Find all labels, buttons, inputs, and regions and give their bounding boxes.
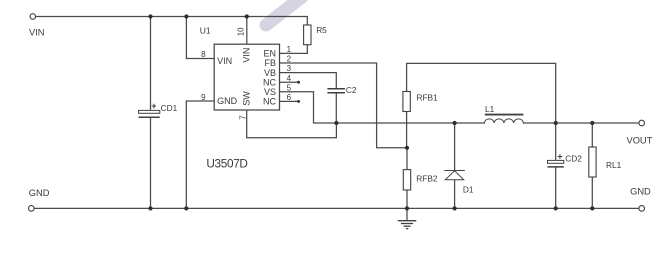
junction pin10/VIN: [245, 14, 249, 18]
node VOUT : wire L1 to terminal: [523, 122, 639, 124]
wire RFB2 leads: [406, 148, 408, 170]
wire pin3 VB to C2: [279, 73, 336, 89]
wire pin10 drop: [246, 17, 248, 45]
svg-text:SW: SW: [242, 91, 252, 106]
junction RFB2/GND: [405, 206, 409, 210]
wire R5 bottom lead to pin1: [279, 45, 307, 54]
svg-text:FB: FB: [264, 58, 276, 68]
svg-text:VS: VS: [264, 87, 276, 97]
diode D1: [444, 171, 465, 180]
wire SW node to L1: [336, 122, 484, 124]
pin6 NC end dot: [297, 100, 300, 103]
wire CD1 bottom lead: [150, 118, 152, 208]
svg-text:VIN: VIN: [242, 48, 252, 63]
svg-text:U1: U1: [200, 25, 211, 35]
watermark band (decorative): [266, 0, 302, 25]
svg-text:1: 1: [287, 45, 292, 54]
node GND : bottom rail wire: [34, 207, 639, 209]
svg-text:2: 2: [287, 55, 292, 64]
wire pin7 SW loop: [247, 110, 337, 138]
junction D1/GND: [453, 206, 457, 210]
svg-text:CD2: CD2: [565, 153, 582, 163]
wire R5 top lead: [306, 17, 308, 26]
svg-text:+: +: [557, 151, 562, 161]
svg-text:GND: GND: [630, 186, 651, 196]
svg-text:NC: NC: [263, 77, 276, 87]
wire CD2 leads: [555, 123, 557, 160]
svg-text:8: 8: [201, 50, 206, 59]
wire pin6 NC stub: [279, 100, 298, 102]
svg-text:RL1: RL1: [606, 160, 622, 170]
svg-text:GND: GND: [29, 188, 50, 198]
junction D1 cathode: [453, 121, 457, 125]
svg-text:4: 4: [287, 74, 292, 83]
wire CD1 top drop: [150, 17, 152, 111]
wire pin2 FB to divider midpoint: [279, 63, 407, 148]
svg-text:CD1: CD1: [161, 103, 178, 113]
junction RL1/GND: [590, 206, 594, 210]
terminal GND left: [29, 206, 35, 212]
terminal GND right: [639, 206, 645, 212]
svg-text:NC: NC: [263, 97, 276, 107]
wire pin5 VS to SW node: [279, 92, 336, 123]
wire pin9 GND drop: [186, 101, 214, 208]
wire C2 bottom lead: [335, 93, 337, 123]
svg-text:VOUT: VOUT: [627, 136, 653, 146]
capacitor CD1 (electrolytic): [139, 101, 160, 117]
wire ground stem: [406, 208, 408, 220]
junction SW/C2/VS: [334, 121, 338, 125]
svg-text:VIN: VIN: [29, 28, 45, 38]
capacitor CD2 (electrolytic): [548, 151, 564, 167]
junction CD2/GND: [554, 206, 558, 210]
svg-text:L1: L1: [485, 104, 495, 114]
junction RL1/VOUT: [590, 121, 594, 125]
resistor RL1: [589, 147, 596, 177]
svg-text:RFB1: RFB1: [417, 93, 439, 103]
junction pin8/VIN: [184, 14, 188, 18]
junction CD1/GND: [148, 206, 152, 210]
svg-text:U3507D: U3507D: [206, 156, 247, 170]
svg-text:5: 5: [287, 83, 292, 92]
op-amp U1 : IC body U3507D: [214, 44, 279, 110]
svg-text:EN: EN: [263, 49, 276, 59]
svg-text:+: +: [151, 101, 156, 111]
svg-text:R5: R5: [316, 25, 327, 35]
resistor RFB1: [403, 92, 410, 112]
junction pin9/GND: [184, 206, 188, 210]
svg-text:RFB2: RFB2: [416, 174, 438, 184]
wire D1 leads: [454, 123, 456, 171]
resistor RFB2: [403, 170, 410, 190]
svg-text:3: 3: [287, 64, 292, 73]
svg-text:7: 7: [238, 115, 247, 120]
ground symbol: [398, 221, 417, 229]
resistor R5: [304, 25, 311, 45]
svg-text:D1: D1: [463, 184, 474, 194]
junction CD1/VIN: [148, 14, 152, 18]
node VIN : top rail wire: [36, 16, 308, 18]
svg-text:10: 10: [236, 27, 245, 36]
junction CD2/VOUT: [554, 121, 558, 125]
svg-text:6: 6: [287, 93, 292, 102]
svg-text:VB: VB: [264, 68, 276, 78]
svg-text:VIN: VIN: [217, 56, 232, 66]
svg-text:9: 9: [201, 93, 206, 102]
svg-text:GND: GND: [217, 96, 238, 106]
svg-text:C2: C2: [346, 85, 357, 95]
inductor L1: [484, 115, 523, 123]
wire RFB1 bottom to midpoint: [406, 112, 408, 148]
pin4 NC end dot: [297, 81, 300, 84]
terminal VIN: [30, 14, 36, 20]
capacitor C2: [327, 89, 345, 93]
junction FB midpoint: [405, 146, 409, 150]
terminal VOUT: [639, 120, 645, 126]
wire pin4 NC stub: [279, 81, 298, 83]
wire pin8 drop: [186, 17, 214, 59]
wire RL1 leads: [591, 123, 593, 147]
wire RFB1 top to VOUT node: [407, 63, 556, 123]
